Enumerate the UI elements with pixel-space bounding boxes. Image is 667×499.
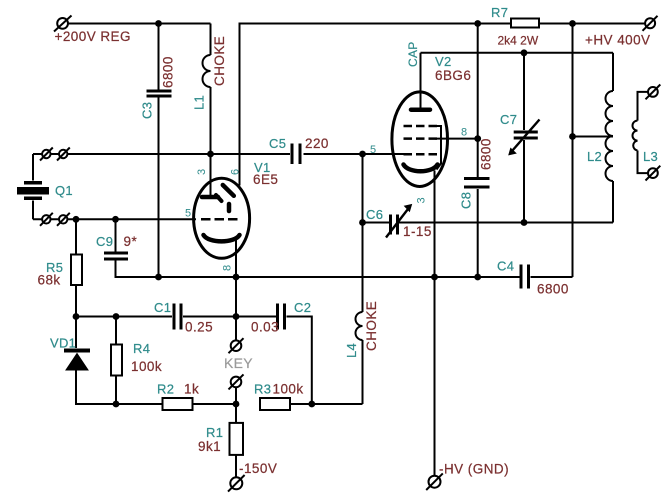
tube V2 grid row 1 (404, 125, 438, 128)
svg-text:9*: 9* (124, 234, 138, 249)
svg-text:C3: C3 (140, 102, 155, 119)
svg-text:6: 6 (230, 169, 242, 175)
wire crystal top lead (32, 154, 34, 181)
svg-text:CHOKE: CHOKE (212, 36, 227, 86)
svg-text:220: 220 (305, 136, 329, 151)
svg-text:0.03: 0.03 (251, 320, 279, 335)
wire R1 to -150V terminal (235, 455, 237, 477)
svg-text:V2: V2 (435, 54, 452, 69)
junction L1 bottom V1 anode (207, 151, 214, 158)
svg-text:-HV (GND): -HV (GND) (439, 462, 509, 477)
tube V1 grid dashes (pin 5) (201, 218, 238, 221)
junction -HV drop (431, 274, 438, 281)
junction C1 C2 KEY (233, 313, 240, 320)
svg-text:C8: C8 (459, 192, 474, 209)
terminal -HV GND (426, 473, 443, 490)
svg-text:R4: R4 (133, 341, 150, 356)
svg-text:6800: 6800 (161, 56, 176, 88)
wire bottom line R2 R3 (193, 403, 363, 405)
junction C9 top (112, 216, 119, 223)
tube V1 anode lead (210, 154, 212, 195)
wire L4 top lead (362, 223, 364, 313)
junction R1 top (233, 401, 240, 408)
svg-text:-150V: -150V (239, 461, 277, 476)
wire rail B (V1 pin6 riser + top rail to R7) (240, 24, 512, 186)
wire R4 branch (115, 317, 117, 405)
junction C3 bottom cathode line (155, 274, 162, 281)
svg-text:C7: C7 (500, 112, 517, 127)
terminal L3 bottom (646, 166, 661, 181)
terminal L3 top (646, 85, 661, 100)
junction R4 top (113, 313, 120, 320)
capacitor C7 variable plates (514, 132, 538, 138)
junction C8 bottom (474, 274, 481, 281)
wire C1 line left (76, 316, 236, 318)
wire -HV ground drop (434, 277, 436, 476)
capacitor C3 (147, 91, 172, 96)
svg-text:6E5: 6E5 (253, 172, 278, 187)
svg-text:L3: L3 (643, 149, 658, 164)
capacitor C6 arrow (386, 205, 412, 238)
wire C2 line right (236, 317, 312, 405)
resistor R7 (511, 19, 539, 28)
svg-text:C6: C6 (366, 207, 383, 222)
wire L1 top lead (210, 24, 212, 56)
svg-text:L2: L2 (587, 149, 602, 164)
svg-text:R3: R3 (254, 382, 271, 397)
wire V1 pin8 / KEY column (235, 240, 237, 423)
wire L2 tap (573, 136, 614, 138)
inductor L3 (633, 121, 638, 151)
capacitor C4 (521, 265, 529, 289)
wire grid line y=222.5 (C6 net) (363, 222, 614, 224)
wire L2 branch vertical x=572.5 (572, 24, 574, 278)
terminal crystal top left (40, 148, 53, 161)
wire L3 top link (638, 92, 649, 121)
capacitor C1 (174, 304, 181, 330)
tube V2 envelope (392, 92, 448, 187)
junction VD1 top (73, 313, 80, 320)
junction R5 top (73, 216, 80, 223)
wire L4 bottom lead (362, 340, 364, 404)
crystal Q1 (17, 183, 49, 199)
wire V2 pin8 to screen branch (435, 138, 478, 140)
tube V2 cathode arc (pin 3) (404, 165, 438, 172)
terminal crystal bottom right (57, 213, 70, 226)
wire cathode line y=277 (159, 276, 573, 278)
junction V2 grid riser (359, 151, 366, 158)
resistor R3 (260, 398, 290, 410)
junction V2 pin8 screen (474, 135, 481, 142)
svg-text:8: 8 (461, 127, 467, 139)
svg-text:100k: 100k (131, 359, 162, 374)
resistor R4 (111, 345, 122, 376)
tube V1 deflector tail (216, 195, 222, 201)
wire C8 / screen branch vertical x=477.7 (477, 24, 479, 278)
svg-text:1-15: 1-15 (403, 224, 432, 239)
terminal -150V (228, 475, 245, 492)
wire rail B right (R7 to +HV terminal) (539, 23, 645, 25)
svg-text:0.25: 0.25 (185, 320, 213, 335)
svg-text:L4: L4 (344, 343, 359, 358)
svg-text:R7: R7 (491, 5, 508, 20)
wire V2 cathode lead (434, 171, 436, 278)
wire C9 branch (116, 219, 159, 277)
tube V1 ray electrode tick (227, 204, 232, 211)
svg-text:VD1: VD1 (50, 336, 76, 351)
wire L2 top lead (612, 53, 614, 91)
svg-text:1k: 1k (184, 382, 199, 397)
wire C3 branch vertical (158, 24, 160, 278)
inductor L2 (606, 91, 614, 181)
svg-text:100k: 100k (273, 382, 304, 397)
wire R5 top lead (75, 219, 77, 254)
wire V2 grid riser x=362.5 (362, 154, 364, 223)
terminal KEY lower (229, 374, 244, 389)
wire L2 bottom lead (612, 181, 614, 223)
capacitor C5 (292, 144, 300, 165)
wire oscillator line y=154 (33, 153, 404, 155)
svg-text:3: 3 (196, 169, 208, 175)
tube V1 envelope (194, 178, 250, 258)
wire R5 bottom to VD1 (75, 285, 77, 348)
wire L1 bottom lead (210, 87, 212, 154)
junction V1 pin8 cathode line (233, 274, 240, 281)
terminal crystal bottom left (40, 213, 53, 226)
capacitor C2 (278, 304, 285, 330)
svg-text:C5: C5 (269, 136, 286, 151)
svg-text:68k: 68k (38, 273, 61, 288)
svg-text:C4: C4 (497, 259, 514, 274)
svg-text:R1: R1 (206, 425, 223, 440)
svg-text:3: 3 (416, 197, 428, 203)
wire L3 bottom link (638, 151, 649, 174)
junction C7 bottom (521, 219, 528, 226)
junction C3 top rail (155, 20, 162, 27)
terminal +200V REG (54, 16, 72, 32)
svg-text:6800: 6800 (537, 282, 569, 297)
svg-text:L1: L1 (192, 95, 207, 110)
wire VD1 to bottom line (76, 370, 163, 404)
terminal +HV 400V (643, 16, 658, 31)
terminal KEY upper (229, 338, 244, 353)
svg-text:+HV 400V: +HV 400V (585, 33, 651, 48)
resistor R2 (163, 398, 193, 410)
svg-text:R2: R2 (157, 382, 174, 397)
svg-text:Q1: Q1 (55, 183, 73, 198)
svg-text:6800: 6800 (479, 138, 494, 170)
junction C7 on cap line (521, 49, 528, 56)
wire V1 grid line y=219.3 (33, 218, 196, 220)
tube V2 screen grid row 2 (pin 8) (404, 137, 438, 140)
svg-text:C9: C9 (96, 234, 113, 249)
junction screen branch top rail (474, 20, 481, 27)
tube V1 anode bar (pin 3) (202, 195, 218, 200)
capacitor C8 (464, 179, 490, 188)
junction R4 bottom (113, 401, 120, 408)
inductor L4 (356, 312, 363, 340)
capacitor C9 (104, 253, 128, 259)
svg-text:8: 8 (222, 265, 234, 271)
inductor L1 (203, 55, 211, 87)
svg-text:5: 5 (185, 208, 191, 220)
svg-text:KEY: KEY (224, 355, 253, 371)
svg-text:5: 5 (370, 144, 376, 156)
svg-text:6BG6: 6BG6 (435, 68, 471, 83)
tube V2 control grid row 3 (pin 5) (404, 153, 438, 156)
tube V1 cathode arc (pin 8) (204, 235, 240, 241)
resistor R5 (71, 255, 82, 286)
svg-text:9k1: 9k1 (198, 439, 221, 454)
junction L2 tap (569, 133, 576, 140)
tube V1 deflector diagonal (pin 6) (223, 185, 234, 196)
svg-text:C1: C1 (154, 300, 171, 315)
wire crystal bottom lead (32, 201, 34, 220)
terminal crystal top right (57, 148, 70, 161)
resistor R1 (230, 423, 244, 455)
svg-text:CAP: CAP (406, 41, 420, 67)
svg-text:C2: C2 (294, 300, 311, 315)
svg-text:2k4 2W: 2k4 2W (498, 34, 539, 48)
capacitor C6 variable plates (391, 215, 398, 235)
diode VD1 (64, 351, 90, 371)
junction C6 left (359, 219, 366, 226)
capacitor C7 arrow (509, 120, 540, 155)
junction L2 branch top rail (569, 20, 576, 27)
tube V2 anode bar (CAP) (411, 107, 430, 112)
wire +200V rail A (68, 23, 211, 25)
wire anode cap line y=52.8 (421, 53, 614, 108)
svg-text:CHOKE: CHOKE (364, 301, 379, 351)
junction C2 bottom (308, 401, 315, 408)
tube V2 beam plate link (435, 126, 441, 170)
svg-text:+200V REG: +200V REG (55, 29, 131, 44)
wire C7 branch vertical (523, 53, 525, 223)
